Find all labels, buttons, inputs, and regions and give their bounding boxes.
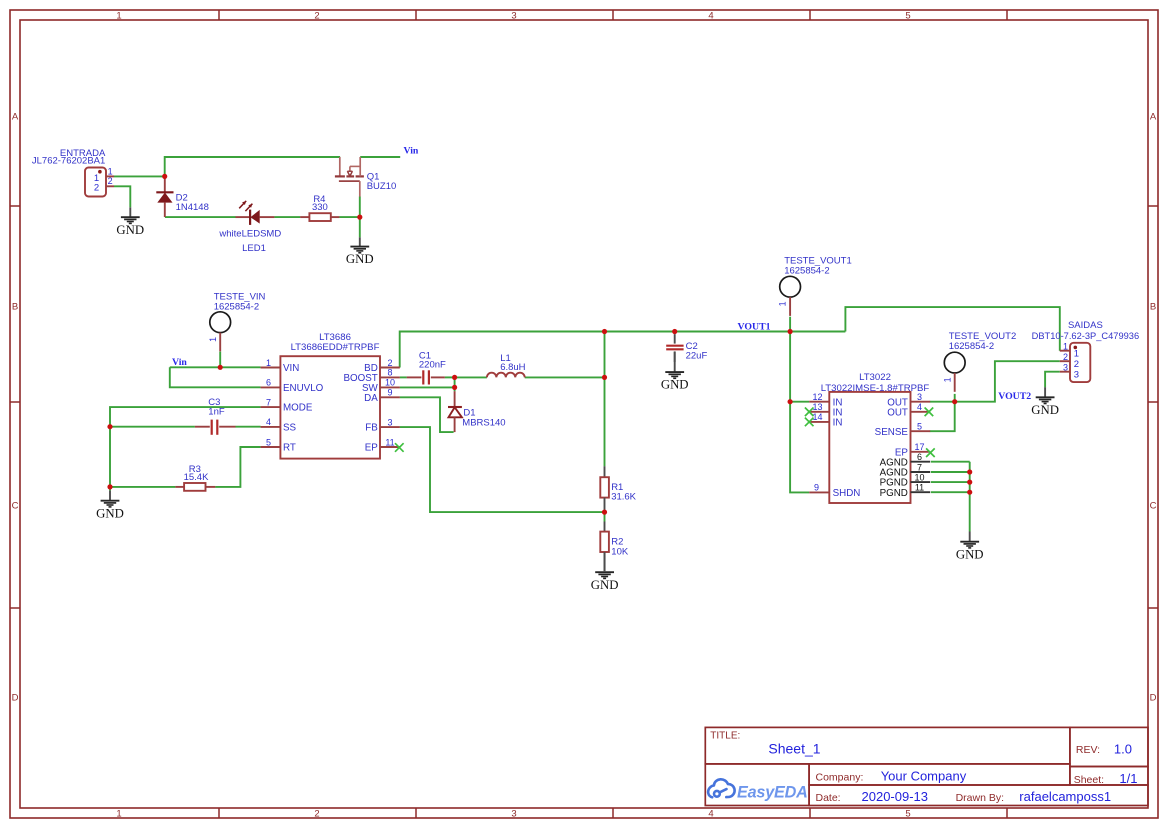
svg-text:2: 2 bbox=[387, 358, 392, 368]
svg-text:Company:: Company: bbox=[816, 771, 864, 783]
svg-text:D: D bbox=[12, 692, 19, 703]
svg-text:MODE: MODE bbox=[283, 403, 313, 414]
svg-text:9: 9 bbox=[814, 483, 819, 493]
svg-text:1: 1 bbox=[778, 301, 788, 306]
svg-text:DBT10-7.62-3P_C479936: DBT10-7.62-3P_C479936 bbox=[1032, 331, 1140, 341]
svg-text:OUT: OUT bbox=[887, 407, 908, 418]
svg-text:GND: GND bbox=[96, 506, 124, 520]
svg-text:15.4K: 15.4K bbox=[184, 472, 209, 483]
svg-text:C: C bbox=[1150, 500, 1157, 511]
svg-text:TITLE:: TITLE: bbox=[710, 730, 740, 741]
svg-text:14: 14 bbox=[812, 412, 822, 422]
svg-text:LED1: LED1 bbox=[242, 243, 266, 254]
svg-text:3: 3 bbox=[1063, 362, 1068, 372]
svg-text:PGND: PGND bbox=[880, 488, 908, 499]
svg-text:ENUVLO: ENUVLO bbox=[283, 383, 324, 394]
svg-text:RT: RT bbox=[283, 443, 296, 454]
svg-text:C: C bbox=[12, 500, 19, 511]
svg-text:FB: FB bbox=[365, 423, 378, 434]
svg-text:GND: GND bbox=[346, 252, 374, 266]
svg-text:1: 1 bbox=[208, 337, 218, 342]
svg-text:Sheet:: Sheet: bbox=[1074, 774, 1104, 786]
svg-text:2: 2 bbox=[314, 11, 319, 22]
svg-text:10K: 10K bbox=[611, 546, 629, 557]
svg-text:1N4148: 1N4148 bbox=[176, 202, 209, 213]
svg-text:A: A bbox=[12, 111, 19, 122]
svg-text:5: 5 bbox=[917, 422, 922, 432]
svg-text:1.0: 1.0 bbox=[1114, 741, 1132, 756]
svg-text:10: 10 bbox=[914, 472, 924, 482]
svg-text:5: 5 bbox=[905, 809, 910, 820]
svg-text:4: 4 bbox=[266, 417, 271, 427]
svg-text:3: 3 bbox=[387, 417, 392, 427]
svg-text:1/1: 1/1 bbox=[1119, 771, 1137, 786]
svg-text:D: D bbox=[1150, 692, 1157, 703]
svg-text:13: 13 bbox=[812, 402, 822, 412]
svg-text:GND: GND bbox=[661, 378, 689, 392]
svg-text:6: 6 bbox=[917, 452, 922, 462]
svg-text:Your Company: Your Company bbox=[881, 769, 967, 784]
svg-text:rafaelcamposs1: rafaelcamposs1 bbox=[1019, 789, 1111, 804]
svg-text:GND: GND bbox=[1031, 403, 1059, 417]
svg-text:1625854-2: 1625854-2 bbox=[949, 341, 994, 352]
svg-text:1625854-2: 1625854-2 bbox=[784, 265, 829, 276]
svg-text:4: 4 bbox=[708, 11, 713, 22]
svg-text:3: 3 bbox=[1074, 369, 1079, 380]
svg-text:whiteLEDSMD: whiteLEDSMD bbox=[218, 228, 281, 239]
svg-text:1: 1 bbox=[108, 166, 113, 176]
svg-text:JL762-76202BA1: JL762-76202BA1 bbox=[32, 156, 105, 167]
svg-text:B: B bbox=[12, 301, 18, 312]
svg-text:7: 7 bbox=[917, 462, 922, 472]
svg-text:4: 4 bbox=[917, 402, 922, 412]
svg-text:5: 5 bbox=[266, 437, 271, 447]
svg-text:1: 1 bbox=[942, 377, 952, 382]
svg-text:1: 1 bbox=[116, 11, 121, 22]
svg-text:1: 1 bbox=[116, 809, 121, 820]
svg-text:1: 1 bbox=[1063, 341, 1068, 351]
svg-text:8: 8 bbox=[387, 368, 392, 378]
svg-text:DA: DA bbox=[364, 393, 378, 404]
svg-text:1nF: 1nF bbox=[208, 407, 225, 418]
svg-text:2: 2 bbox=[94, 183, 99, 194]
svg-text:5: 5 bbox=[905, 11, 910, 22]
svg-text:17: 17 bbox=[914, 442, 924, 452]
svg-text:2: 2 bbox=[108, 176, 113, 186]
svg-text:3: 3 bbox=[917, 392, 922, 402]
svg-text:EasyEDA: EasyEDA bbox=[737, 784, 808, 802]
svg-text:SENSE: SENSE bbox=[875, 427, 909, 438]
svg-text:4: 4 bbox=[708, 809, 713, 820]
svg-text:Sheet_1: Sheet_1 bbox=[768, 740, 820, 756]
svg-text:SS: SS bbox=[283, 423, 297, 434]
svg-text:3: 3 bbox=[511, 809, 516, 820]
svg-text:LT3686EDD#TRPBF: LT3686EDD#TRPBF bbox=[291, 342, 380, 353]
svg-text:1625854-2: 1625854-2 bbox=[214, 302, 259, 313]
svg-text:Drawn By:: Drawn By: bbox=[956, 792, 1004, 804]
svg-text:A: A bbox=[1150, 111, 1157, 122]
svg-text:10: 10 bbox=[385, 378, 395, 388]
svg-text:SAIDAS: SAIDAS bbox=[1068, 320, 1103, 331]
svg-text:31.6K: 31.6K bbox=[611, 492, 636, 503]
svg-text:2020-09-13: 2020-09-13 bbox=[862, 789, 929, 804]
svg-text:3: 3 bbox=[511, 11, 516, 22]
svg-text:7: 7 bbox=[266, 397, 271, 407]
svg-text:Vin: Vin bbox=[404, 145, 419, 156]
svg-text:Date:: Date: bbox=[816, 792, 841, 804]
svg-text:11: 11 bbox=[915, 483, 924, 493]
svg-text:6: 6 bbox=[266, 378, 271, 388]
svg-text:2: 2 bbox=[1074, 359, 1079, 370]
svg-text:VOUT1: VOUT1 bbox=[738, 322, 771, 333]
svg-text:IN: IN bbox=[833, 418, 843, 429]
svg-text:GND: GND bbox=[591, 578, 619, 592]
svg-text:GND: GND bbox=[956, 547, 984, 561]
svg-text:VIN: VIN bbox=[283, 363, 299, 374]
svg-text:330: 330 bbox=[312, 202, 328, 213]
svg-text:SHDN: SHDN bbox=[833, 488, 861, 499]
svg-text:1: 1 bbox=[1074, 348, 1079, 359]
svg-text:6.8uH: 6.8uH bbox=[500, 362, 525, 373]
svg-text:12: 12 bbox=[812, 392, 822, 402]
svg-text:1: 1 bbox=[266, 358, 271, 368]
svg-text:MBRS140: MBRS140 bbox=[462, 417, 505, 428]
svg-text:GND: GND bbox=[116, 223, 144, 237]
svg-text:22uF: 22uF bbox=[686, 350, 708, 361]
svg-text:EP: EP bbox=[365, 443, 379, 454]
svg-text:REV:: REV: bbox=[1076, 744, 1100, 756]
svg-text:BUZ10: BUZ10 bbox=[367, 181, 397, 192]
svg-text:11: 11 bbox=[385, 437, 394, 447]
svg-text:LT3022: LT3022 bbox=[859, 372, 891, 383]
svg-text:VOUT2: VOUT2 bbox=[998, 391, 1031, 402]
svg-text:220nF: 220nF bbox=[419, 360, 446, 371]
svg-text:B: B bbox=[1150, 301, 1156, 312]
svg-text:2: 2 bbox=[314, 809, 319, 820]
svg-text:9: 9 bbox=[387, 388, 392, 398]
svg-text:Vin: Vin bbox=[172, 357, 187, 368]
svg-text:2: 2 bbox=[1063, 352, 1068, 362]
